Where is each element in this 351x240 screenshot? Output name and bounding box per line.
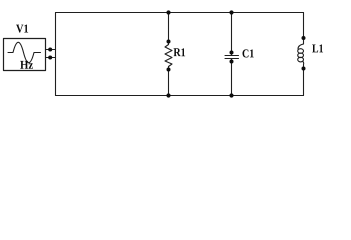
svg-text:V1: V1: [16, 21, 29, 35]
terminal dot R1 top: [167, 40, 171, 44]
terminal dot R1 bottom: [167, 68, 171, 72]
wire source stub lower: [46, 57, 56, 59]
terminal dot source upper: [48, 48, 52, 52]
source V1 box: [4, 39, 46, 71]
wire right vertical upper: [303, 13, 305, 45]
resistor R1 leads: [168, 13, 170, 96]
capacitor C1 plates: [225, 56, 239, 59]
svg-text:L1: L1: [312, 41, 324, 55]
wire bottom rail: [56, 95, 304, 97]
source V1 sine symbol: [8, 42, 41, 62]
svg-text:C1: C1: [242, 46, 254, 60]
junction dot top C1: [229, 10, 233, 14]
svg-text:Hz: Hz: [20, 58, 34, 72]
terminal dot L1 bottom: [302, 67, 306, 71]
junction dot bottom R1: [166, 93, 170, 97]
terminal dot L1 top: [302, 36, 306, 40]
wire top rail: [56, 12, 304, 14]
wire left vertical: [55, 13, 57, 96]
wire source stub upper: [46, 49, 56, 51]
resistor R1 zigzag: [165, 45, 172, 67]
capacitor C1 leads: [231, 13, 233, 96]
svg-text:R1: R1: [173, 45, 185, 59]
terminal dot C1 bottom: [230, 60, 234, 64]
terminal dot source lower: [48, 56, 52, 60]
inductor L1 coil: [298, 44, 303, 49]
terminal dot C1 top: [230, 51, 234, 55]
wire right vertical lower: [303, 65, 305, 96]
junction dot bottom C1: [229, 93, 233, 97]
junction dot top R1: [166, 10, 170, 14]
